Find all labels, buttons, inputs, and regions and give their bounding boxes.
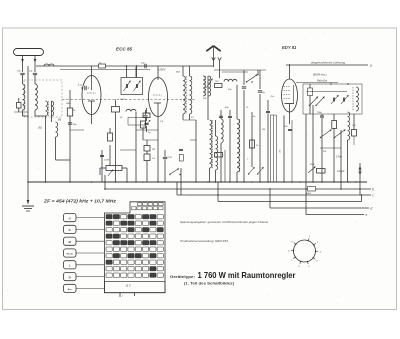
svg-text:L: L [69, 264, 71, 268]
svg-text:40kΩ: 40kΩ [306, 192, 312, 195]
svg-text:Musik: Musik [67, 254, 74, 256]
svg-text:1 760 W mit Raumtonregler: 1 760 W mit Raumtonregler [198, 271, 297, 280]
svg-text:12 V: 12 V [125, 284, 131, 288]
svg-text:d: d [371, 207, 373, 211]
svg-text:abgeschirmte Leitung: abgeschirmte Leitung [311, 61, 345, 65]
svg-text:(EM34-Anz.): (EM34-Anz.) [313, 74, 327, 77]
svg-text:2M: 2M [261, 129, 265, 131]
svg-text:250p: 250p [65, 103, 72, 105]
svg-text:EDY 81: EDY 81 [282, 45, 297, 50]
svg-text:U: U [69, 216, 71, 220]
svg-text:2kΩ: 2kΩ [37, 128, 42, 130]
svg-text:ECC 85: ECC 85 [116, 47, 133, 52]
svg-text:2M: 2M [151, 149, 155, 151]
svg-text:a: a [370, 63, 372, 67]
svg-text:(1. Teil des Schaltbildes): (1. Teil des Schaltbildes) [184, 282, 235, 286]
svg-text:+250V: +250V [158, 69, 166, 72]
svg-text:b: b [372, 188, 374, 192]
svg-text:0,1M: 0,1M [104, 160, 109, 162]
svg-text:1M: 1M [323, 151, 326, 153]
svg-text:Tonabnehmerverwendung: GRM 4/5: Tonabnehmerverwendung: GRM 4/54 [180, 239, 228, 243]
svg-text:Ratio-Det.: Ratio-Det. [317, 79, 328, 82]
svg-text:-Pol: -Pol [270, 96, 274, 98]
svg-text:e: e [366, 213, 368, 217]
svg-text:ZF = 454 (472) kHz + 10,7 MHz: ZF = 454 (472) kHz + 10,7 MHz [43, 199, 117, 204]
svg-text:Spannungsangaben: gemessen mit: Spannungsangaben: gemessen mit Röhrenvol… [180, 220, 269, 224]
svg-text:Gerätetype:: Gerätetype: [170, 275, 195, 279]
svg-text:100p: 100p [317, 112, 323, 114]
svg-text:250k: 250k [309, 164, 316, 166]
svg-text:20p: 20p [227, 89, 232, 91]
